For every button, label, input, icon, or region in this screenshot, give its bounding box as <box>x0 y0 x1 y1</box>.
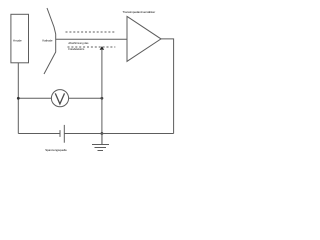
svg-text:Fotodetektors: Fotodetektors <box>68 47 85 51</box>
wire: shield ground vertical <box>101 49 103 144</box>
voltmeter V <box>51 90 68 107</box>
wire: bottom rail left (to battery) <box>18 133 60 135</box>
wire: voltmeter to shield ground line <box>69 97 102 99</box>
svg-text:Abschirmung des: Abschirmung des <box>68 41 89 45</box>
wire: cathode to op-amp input <box>56 38 127 40</box>
ground <box>101 134 103 145</box>
wire: voltmeter branch left <box>18 97 51 99</box>
svg-text:Spannungsquelle: Spannungsquelle <box>45 148 67 152</box>
node: junction voltmeter wire / shield ground line <box>101 97 104 100</box>
wire: op-amp output <box>161 39 174 134</box>
node: junction anode wire / voltmeter wire <box>17 97 20 100</box>
shield dashed line top <box>66 31 116 33</box>
svg-text:Transimpedanzverstärker: Transimpedanzverstärker <box>123 10 156 14</box>
wire: bottom rail right (battery to op-amp output) <box>64 133 173 135</box>
battery (voltage source) <box>59 130 61 137</box>
svg-text:Kathode: Kathode <box>42 39 53 43</box>
node: junction shield line / bottom rail <box>101 132 104 135</box>
cathode (curved photocathode) <box>44 8 56 74</box>
op-amp U1 (transimpedance amplifier) <box>127 16 161 61</box>
arrow: shield ground pointer <box>100 46 105 50</box>
wire: anode to bottom rail <box>17 63 19 134</box>
svg-text:Anode: Anode <box>13 39 22 43</box>
shield dashed line bottom <box>68 46 116 48</box>
anode plate (box) <box>11 14 29 63</box>
